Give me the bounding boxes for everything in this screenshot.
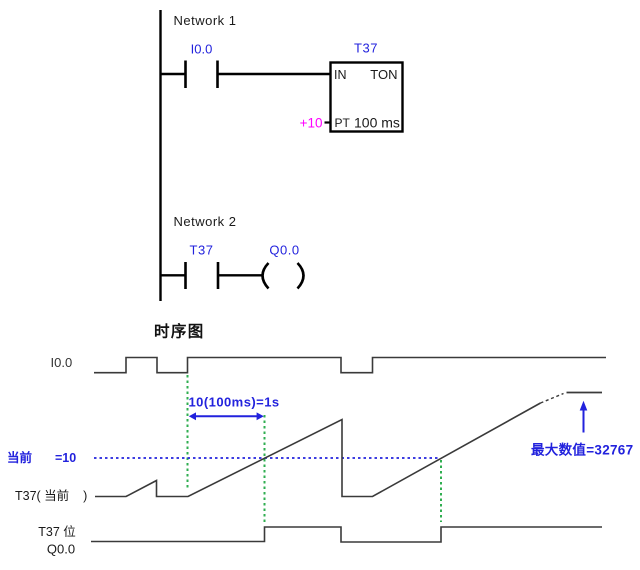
waveform T37 dashed saturation segment: [541, 394, 564, 404]
guide line (green dotted) at second Q0.0 rise: [440, 460, 442, 522]
wire: rail to contact T37: [161, 274, 186, 276]
guide line (green dotted) at first Q0.0 rise: [264, 415, 266, 524]
guide line (green dotted) at first timing start: [187, 375, 189, 490]
svg-text:时序图: 时序图: [154, 322, 205, 341]
wire: rail to contact I0.0: [161, 73, 186, 75]
power rail (left bus): [159, 10, 161, 301]
svg-text:T37: T37: [354, 41, 378, 56]
waveform I0.0: [94, 358, 606, 373]
wire: PT pin stub: [325, 121, 331, 123]
svg-text:IN: IN: [334, 68, 347, 82]
dimension arrow (double-headed, blue): [189, 412, 264, 420]
svg-text:T37( 当前 ): T37( 当前 ): [15, 488, 87, 503]
svg-text:Network 1: Network 1: [174, 13, 237, 28]
coil Q0.0: [263, 263, 304, 289]
svg-text:Network 2: Network 2: [174, 214, 237, 229]
svg-text:100 ms: 100 ms: [354, 115, 400, 131]
svg-text:I0.0: I0.0: [191, 42, 213, 57]
svg-text:=10: =10: [55, 451, 76, 465]
max value pointer arrow (blue): [580, 401, 588, 433]
timer T37 TON box: [331, 63, 403, 132]
wire: contact I0.0 to timer T37 IN pin: [218, 73, 331, 75]
preset level line (blue dotted): [94, 457, 440, 459]
svg-text:Q0.0: Q0.0: [47, 542, 75, 557]
svg-text:I0.0: I0.0: [51, 355, 73, 370]
contact T37 (normally open): [186, 262, 219, 289]
svg-text:T37 位: T37 位: [38, 524, 76, 539]
wire: contact T37 to coil Q0.0: [218, 274, 262, 276]
svg-text:10(100ms)=1s: 10(100ms)=1s: [189, 395, 280, 410]
contact I0.0 (normally open): [186, 61, 218, 89]
waveform T37 max plateau: [567, 392, 603, 394]
svg-text:最大数值=32767: 最大数值=32767: [531, 442, 633, 458]
svg-text:T37: T37: [190, 243, 214, 258]
waveform Q0.0 / T37 bit: [91, 527, 602, 542]
svg-text:当前: 当前: [7, 450, 33, 465]
waveform T37 current value (ramps): [95, 403, 541, 497]
svg-text:Q0.0: Q0.0: [269, 243, 299, 258]
svg-text:+10: +10: [300, 116, 323, 131]
svg-text:TON: TON: [370, 67, 397, 82]
svg-text:PT: PT: [335, 116, 351, 130]
